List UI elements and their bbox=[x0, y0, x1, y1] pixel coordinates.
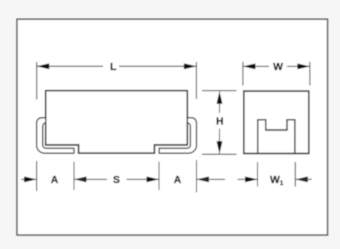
dimension W line left bbox=[243, 65, 269, 67]
svg-text:W: W bbox=[273, 62, 283, 73]
arrow pointing left at right A bbox=[197, 177, 210, 183]
end view folded lead bbox=[258, 120, 295, 154]
dimension S arrow left bbox=[74, 177, 87, 183]
dimension A right extension line bbox=[196, 160, 198, 193]
dimension W extension line right bbox=[309, 62, 311, 86]
dimension H extension line top bbox=[202, 90, 237, 92]
arrow pointing right at W1 bbox=[245, 177, 258, 183]
dimension L extension line right bbox=[195, 62, 197, 99]
dimension S line right bbox=[127, 178, 160, 180]
leader line far right bbox=[197, 178, 226, 180]
end view body bbox=[244, 91, 309, 153]
svg-text:S: S bbox=[113, 175, 120, 186]
dimension W1 extension line left bbox=[257, 162, 259, 187]
right J-lead (side view, mirrored) bbox=[159, 118, 196, 154]
dimension A left extension line bbox=[36, 161, 38, 191]
leader line right of W1 bbox=[295, 178, 311, 180]
dimension L arrow right bbox=[184, 63, 197, 69]
dimension S line left bbox=[74, 178, 107, 180]
dimension H arrow down bbox=[217, 141, 223, 154]
dimension W extension line left bbox=[242, 62, 244, 86]
left J-lead (side view) bbox=[37, 118, 74, 154]
dimension W arrow right bbox=[297, 64, 310, 70]
arrow pointing right at left A bbox=[24, 177, 36, 183]
leader line left of W1 bbox=[238, 178, 258, 180]
svg-text:H: H bbox=[216, 117, 224, 128]
border frame bbox=[17, 19, 328, 235]
dimension H line bbox=[219, 91, 221, 113]
dimension L extension line left bbox=[36, 62, 38, 100]
dimension S left extension line bbox=[73, 162, 75, 191]
dimension H extension line bottom bbox=[202, 153, 237, 155]
dimension W1 extension line right bbox=[294, 162, 296, 187]
capacitor body (side view) bbox=[46, 91, 188, 154]
dimension S right extension line bbox=[158, 162, 160, 191]
svg-text:A: A bbox=[174, 175, 182, 186]
dimension S arrow right bbox=[147, 177, 160, 183]
dimension H arrow up bbox=[217, 91, 223, 104]
arrow pointing left at W1 bbox=[295, 177, 308, 183]
dimension L arrow left bbox=[37, 63, 50, 69]
dimension W arrow left bbox=[243, 64, 256, 70]
svg-text:L: L bbox=[110, 62, 117, 73]
leader line far left bbox=[21, 178, 36, 180]
svg-text:A: A bbox=[51, 175, 59, 186]
dimension W line right bbox=[287, 65, 310, 67]
dimension L line bbox=[37, 65, 103, 67]
